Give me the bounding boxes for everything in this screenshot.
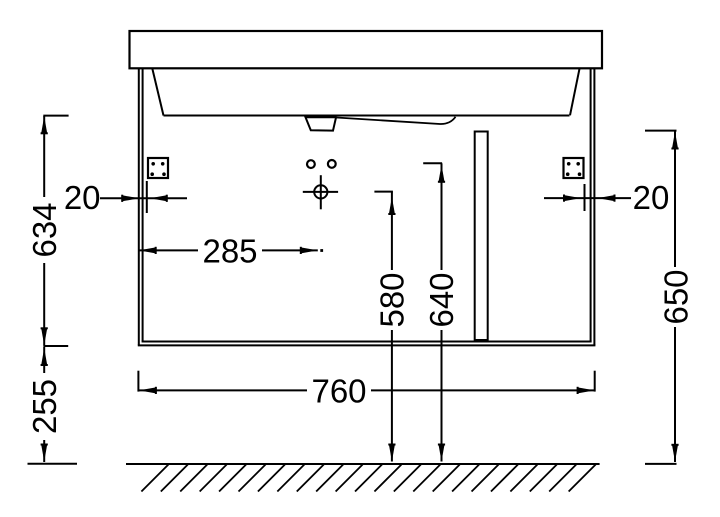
basin drain slope wedge: [336, 117, 455, 124]
dimension 20 left extension line: [146, 181, 148, 213]
drain center mark crosshair: [303, 175, 338, 209]
dimension 650: [657, 131, 694, 462]
svg-text:285: 285: [202, 232, 257, 269]
cabinet left wall inner line: [142, 69, 144, 342]
svg-text:20: 20: [633, 179, 670, 216]
svg-text:580: 580: [374, 272, 411, 327]
left hinge mounting plate: [148, 158, 168, 178]
svg-text:634: 634: [26, 202, 63, 257]
faucet hole right circle: [328, 160, 336, 168]
interior divider panel: [475, 132, 488, 341]
cabinet bottom inner line: [142, 341, 592, 343]
dimension 20 right extension line: [584, 184, 586, 211]
dimension 760 right witness line: [594, 371, 596, 392]
dimension 650 top tick: [645, 130, 677, 132]
dimension 20 right: [544, 179, 669, 216]
dimension 20 left: [64, 179, 187, 216]
cabinet bottom outer line: [138, 344, 596, 346]
dimension 634 top tick: [43, 115, 68, 117]
floor line: [126, 463, 600, 465]
dimension 255: [26, 347, 63, 462]
dimension 760: [139, 372, 595, 409]
dimension 640: [423, 163, 460, 461]
cabinet right wall outer line: [593, 69, 595, 346]
right hinge mounting plate: [564, 158, 584, 178]
dimension 580 reference hook: [374, 191, 393, 193]
dimension 640 reference hook: [423, 162, 442, 164]
floor hatching: [141, 465, 595, 492]
dimension 285: [139, 232, 323, 269]
dimension 634-255 middle tick: [43, 345, 68, 347]
svg-text:640: 640: [423, 272, 460, 327]
svg-text:650: 650: [657, 269, 694, 324]
washbasin countertop outline: [130, 31, 603, 68]
basin drain top lip: [306, 116, 337, 118]
basin left slant wall: [152, 69, 163, 116]
svg-text:20: 20: [64, 179, 101, 216]
cabinet left wall outer line: [138, 69, 140, 346]
floor datum segment left: [28, 463, 78, 465]
basin right slant wall: [570, 69, 580, 116]
basin drain trap outline: [305, 116, 336, 131]
faucet hole left circle: [307, 160, 315, 168]
floor datum segment right: [645, 463, 677, 465]
dimension 634: [26, 116, 63, 346]
cabinet right wall inner line: [590, 69, 592, 342]
dimension 580: [374, 192, 411, 462]
svg-text:760: 760: [311, 372, 366, 409]
basin underside line: [164, 115, 570, 117]
dimension 760 left witness line: [137, 371, 139, 392]
svg-text:255: 255: [26, 379, 63, 434]
